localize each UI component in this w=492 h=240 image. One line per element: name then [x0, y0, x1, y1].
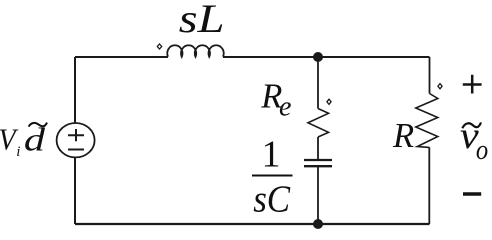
- inductor L1 (sL): [167, 45, 223, 57]
- pin marker diamond (Re pin): [327, 99, 331, 104]
- pin marker diamond (R pin): [438, 84, 442, 89]
- voltage source minus sign: [68, 149, 84, 151]
- wire top-left horizontal (source to inductor): [75, 56, 168, 58]
- svg-text:sL: sL: [179, 0, 225, 41]
- capacitor C1 top plate: [304, 159, 332, 161]
- svg-text:o: o: [476, 135, 488, 166]
- wire Re to capacitor: [317, 137, 319, 159]
- wire middle branch upper (node A to Re): [317, 57, 319, 109]
- node A junction dot (top of Re branch): [313, 52, 323, 62]
- output minus sign: [463, 192, 481, 196]
- svg-text:e: e: [279, 92, 291, 123]
- svg-text:sC: sC: [253, 177, 291, 220]
- voltage source plus sign: [68, 129, 84, 141]
- wire bottom bus: [75, 223, 430, 225]
- pin marker diamond (inductor pin 1): [157, 44, 161, 49]
- svg-text:i: i: [16, 144, 20, 160]
- output plus sign: [463, 75, 482, 94]
- wire top-right horizontal (inductor to node A and load corner): [223, 56, 430, 58]
- fraction bar: [252, 175, 293, 177]
- label vo tilde: [462, 123, 481, 129]
- wire left vertical upper (source top lead): [74, 57, 76, 123]
- tilde over d: [29, 123, 47, 127]
- svg-text:R: R: [392, 117, 414, 155]
- bottom junction dot (Re/C branch to bus): [313, 219, 323, 229]
- wire left vertical lower (source bottom lead): [74, 157, 76, 224]
- resistor Re zigzag: [308, 109, 329, 138]
- wire capacitor to bottom bus: [317, 167, 319, 224]
- capacitor C1 bottom plate: [304, 165, 332, 167]
- svg-text:1: 1: [262, 133, 281, 175]
- wire right vertical lower (load R to bottom bus): [428, 147, 430, 224]
- svg-text:d: d: [24, 122, 46, 159]
- wire right vertical upper (to load R): [429, 57, 431, 94]
- resistor R zigzag: [416, 94, 438, 148]
- voltage source V1 circle (Vi d~): [57, 123, 95, 157]
